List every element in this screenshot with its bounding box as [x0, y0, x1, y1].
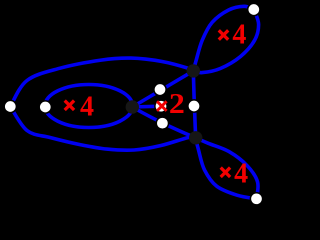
times sign of x2 label over node W4	[157, 101, 167, 111]
wire edge B1-B2	[132, 71, 193, 107]
node W3 (white vertex on edge B1-B2)	[154, 83, 166, 95]
node W2 (white vertex)	[39, 101, 51, 113]
wire edge B2-B3	[193, 71, 195, 138]
node W4 (white vertex, crossed)	[155, 100, 167, 112]
wire outer top arc W1-B2	[10, 58, 193, 106]
node W1 (white vertex, far left)	[4, 100, 16, 112]
wire bottom loop right branch B3-W8	[196, 138, 258, 199]
wire bottom loop left branch B3-W8	[196, 138, 257, 199]
wire inner ellipse W2-B1	[45, 85, 133, 128]
times sign of left x4 label	[65, 101, 74, 110]
times sign of bottom-right x4 label	[221, 168, 230, 177]
svg-text:4: 4	[80, 92, 94, 123]
svg-text:2: 2	[169, 89, 185, 120]
wire edge B1-B3	[132, 107, 195, 138]
wire top loop left branch B2-W7	[193, 6, 254, 71]
node B2 (black vertex, upper right)	[187, 64, 200, 77]
node W5 (white vertex on edge B1-B3)	[156, 117, 168, 129]
svg-text:4: 4	[234, 159, 248, 190]
node W7 (white vertex, top right)	[248, 3, 260, 15]
wire edge B1-W4	[132, 104, 161, 108]
node B1 (black vertex, center)	[126, 100, 139, 113]
node W6 (white vertex on edge B2-B3)	[188, 100, 200, 112]
node W8 (white vertex, bottom right)	[250, 193, 262, 205]
times sign of top-right x4 label	[219, 30, 228, 39]
svg-text:4: 4	[232, 20, 246, 51]
node B3 (black vertex, lower right)	[189, 131, 202, 144]
wire outer bottom arc W1-B3	[10, 107, 195, 151]
wire top loop right branch B2-W7	[193, 9, 258, 72]
